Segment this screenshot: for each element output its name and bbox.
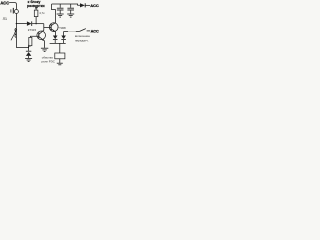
- ground under C2: [67, 14, 74, 17]
- ground under VT2 emitter: [41, 48, 48, 51]
- switch SA1 lever: [80, 29, 86, 32]
- ground under relay K1: [57, 63, 63, 65]
- wire relay to ground: [59, 59, 61, 63]
- wire from ACC to connector XS1: [9, 3, 16, 10]
- inductor L1 adjustment arrow: [11, 29, 17, 40]
- transistor VT1: [49, 4, 58, 36]
- wire bottom-left rail: [16, 47, 28, 49]
- ground under VD4: [25, 58, 32, 61]
- svg-text:АСС: АСС: [90, 3, 99, 8]
- resistor R1: [34, 10, 38, 17]
- svg-text:АСС: АСС: [0, 0, 9, 5]
- wire main horizontal: [16, 23, 27, 25]
- diode VD2: [53, 36, 58, 44]
- capacitor C2: [67, 4, 74, 14]
- svg-text:передатч.: передатч.: [75, 38, 89, 42]
- svg-text:АСС: АСС: [91, 29, 99, 33]
- diode VD3: [61, 32, 66, 44]
- transistor VT2: [37, 24, 46, 48]
- svg-text:4,7к: 4,7к: [39, 11, 45, 15]
- wire relay feed: [59, 43, 61, 53]
- wire top rail: [52, 4, 80, 5]
- wire R2 bottom: [29, 46, 31, 48]
- diode VD5: [80, 3, 90, 7]
- wire bottom rail: [50, 42, 66, 44]
- svg-text:ГТ308: ГТ308: [58, 26, 67, 30]
- wire with arrow to sweep block: [35, 5, 37, 10]
- wire contact to ACC: [87, 30, 91, 32]
- svg-text:КТ315: КТ315: [28, 28, 37, 32]
- resistor R2: [29, 37, 32, 45]
- inductor L1 turns: [15, 28, 17, 37]
- capacitor C1: [57, 4, 64, 14]
- node B junction dot: [35, 23, 36, 24]
- ground under C1: [57, 14, 64, 17]
- svg-text:развертки: развертки: [27, 4, 45, 8]
- relay coil K1: [55, 53, 65, 59]
- node A junction dot: [16, 23, 17, 24]
- svg-text:Л1: Л1: [3, 17, 7, 21]
- wire R2 to VT2 base: [30, 36, 38, 37]
- connector XS1: [11, 8, 19, 14]
- wire left rail: [15, 14, 17, 48]
- wire R1 branch: [35, 17, 37, 24]
- wire VT2 collector to VT1 base: [44, 27, 51, 29]
- diode VD4 to ground: [26, 45, 31, 58]
- diode VD1: [27, 21, 44, 26]
- wire to relay contact: [64, 31, 68, 33]
- svg-text:реле РЭС: реле РЭС: [42, 59, 55, 63]
